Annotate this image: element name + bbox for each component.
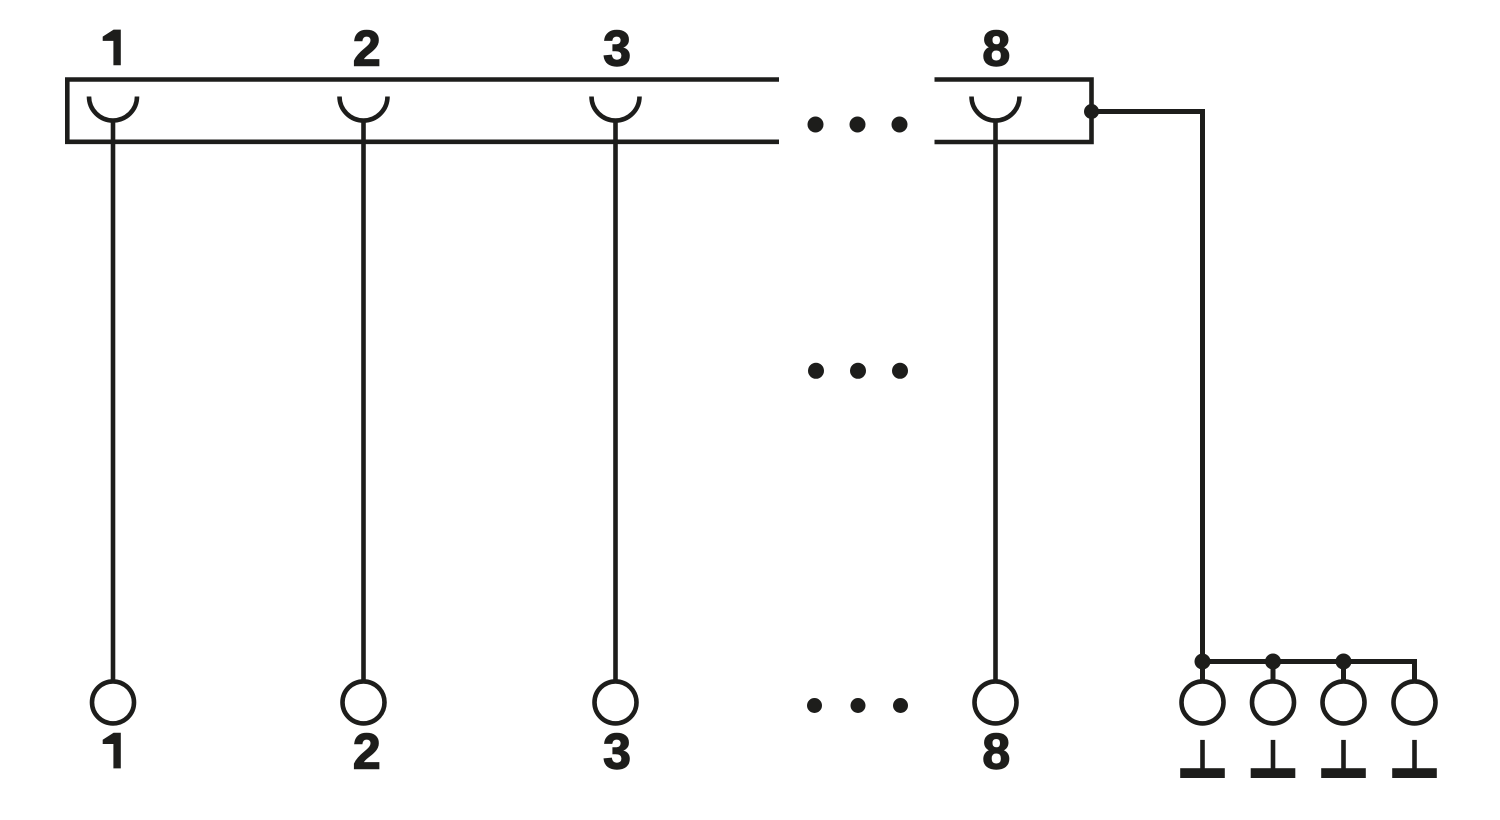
ground bus horizontal with right corner down [1203, 662, 1415, 682]
stub bus to ground terminal C [1341, 662, 1346, 682]
svg-text:3: 3 [603, 20, 631, 76]
junction dot bus B [1265, 654, 1281, 670]
terminal circle 2 [343, 681, 385, 723]
ellipsis dots bottom row [807, 698, 822, 713]
socket contact 3 [592, 97, 640, 121]
junction dot bus A [1195, 654, 1211, 670]
terminal circle 1 [92, 681, 134, 723]
ground bar A [1180, 768, 1225, 778]
connector housing box right (socket 8), open left side [935, 80, 1092, 143]
socket contact 1 [89, 97, 137, 121]
stub bus to ground terminal A [1200, 662, 1205, 682]
stub bus to ground terminal B [1271, 662, 1276, 682]
ground symbol stem A [1200, 740, 1205, 769]
wire socket 8 to terminal 8 [993, 121, 998, 682]
connector housing box left (sockets 1-3), open right side [67, 80, 779, 142]
ground symbol stem D [1412, 740, 1417, 769]
wire socket 2 to terminal 2 [361, 121, 366, 682]
svg-text:2: 2 [353, 724, 381, 780]
ground bar D [1392, 768, 1437, 778]
wire socket 1 to terminal 1 [111, 121, 116, 682]
ground bar C [1321, 768, 1366, 778]
svg-text:2: 2 [353, 20, 381, 76]
svg-text:8: 8 [982, 724, 1010, 780]
ground bar B [1251, 768, 1296, 778]
ground symbol stem B [1271, 740, 1276, 769]
terminal circle 8 [975, 681, 1017, 723]
ground terminal circle D [1394, 681, 1436, 723]
socket contact 2 [340, 97, 388, 121]
ground terminal circle C [1323, 681, 1365, 723]
ground symbol stem C [1341, 740, 1346, 769]
svg-text:8: 8 [982, 20, 1010, 76]
ground terminal circle B [1252, 681, 1294, 723]
terminal circle 3 [595, 681, 637, 723]
ground terminal circle A [1182, 681, 1224, 723]
svg-text:3: 3 [603, 724, 631, 780]
wire socket 3 to terminal 3 [613, 121, 618, 682]
ellipsis dots top row [808, 117, 824, 133]
socket contact 8 [972, 97, 1020, 121]
ellipsis dots middle row [808, 363, 824, 379]
terminal label 1 bottom [103, 733, 121, 769]
pin label 1 top [103, 30, 121, 66]
junction dot bus C [1336, 654, 1352, 670]
wire from housing to ground bus (right, down) [1092, 112, 1203, 662]
junction dot at housing output [1084, 104, 1099, 119]
